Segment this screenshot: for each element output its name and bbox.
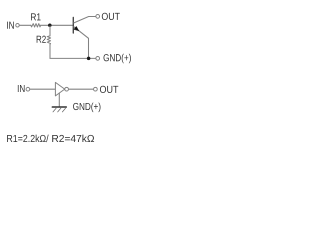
terminal circle IN (top) — [16, 24, 20, 28]
value label R1 — [7, 135, 48, 142]
junction dot node base — [48, 24, 52, 28]
transistor Q1 emitter arrow — [74, 26, 79, 30]
inverter U1 triangle — [55, 82, 64, 96]
transistor Q1 collector — [74, 17, 96, 23]
node IN (bottom) label — [18, 85, 25, 92]
value label R2 — [52, 135, 94, 142]
ground hatch 1 — [53, 108, 56, 112]
junction dot emitter/GND rail — [87, 57, 91, 61]
wire node down to R2 — [49, 26, 51, 36]
wire R2 bottom to GND rail — [50, 44, 96, 58]
node OUT (top) label — [102, 13, 120, 20]
transistor Q1 base bar — [72, 18, 74, 34]
ground hatch 3 — [62, 108, 65, 112]
terminal circle OUT (top) — [96, 15, 100, 19]
node GND(+) (bottom) label — [73, 103, 100, 113]
ground hatch 2 — [58, 108, 61, 112]
wire U1 to ground — [58, 93, 60, 106]
wire U1 to OUT — [69, 88, 94, 90]
wire IN to buffer U1 — [30, 88, 55, 90]
ground bar — [52, 106, 66, 108]
inverter U1 bubble — [65, 87, 69, 91]
node GND(+) (top) label — [104, 54, 131, 64]
resistor R2 zigzag — [47, 36, 50, 45]
resistor R1 label — [31, 13, 41, 20]
wire R1 to base — [41, 24, 73, 26]
resistor R1 zigzag — [31, 24, 41, 27]
terminal circle IN (bottom) — [26, 87, 30, 91]
resistor R2 label — [37, 36, 46, 43]
transistor Q1 emitter — [74, 27, 89, 59]
terminal circle OUT (bottom) — [94, 87, 98, 91]
node OUT (bottom) label — [100, 86, 118, 93]
node IN (top) label — [7, 22, 14, 29]
wire IN to R1 — [19, 24, 30, 26]
terminal circle GND (top) — [96, 57, 100, 61]
